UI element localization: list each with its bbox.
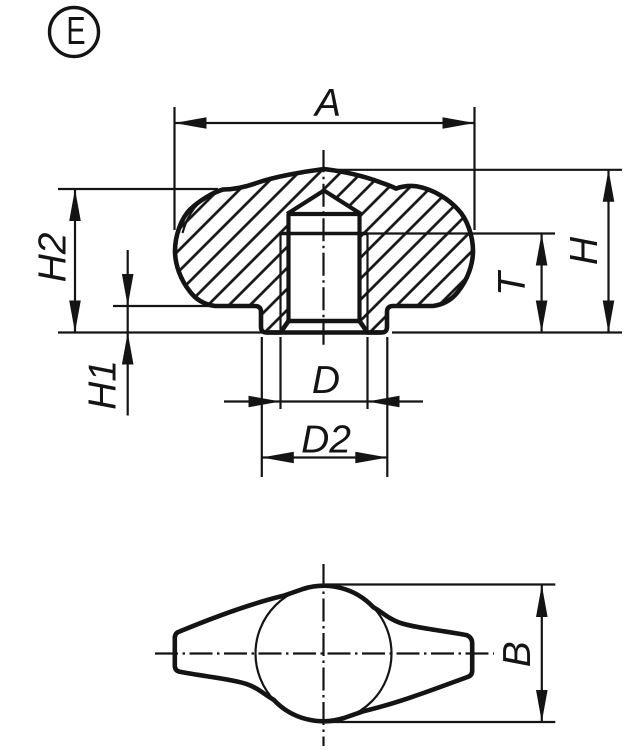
T arrowhead bottom bbox=[536, 301, 548, 333]
dimension H1 bbox=[82, 250, 252, 416]
svg-text:H: H bbox=[563, 236, 606, 265]
A arrowhead left bbox=[175, 117, 207, 129]
T extension line top bbox=[368, 232, 556, 234]
T dimension line bbox=[540, 234, 542, 333]
section centerline bbox=[322, 150, 324, 347]
thread major dia thin left bbox=[279, 234, 281, 332]
B extension line top bbox=[326, 583, 555, 585]
bottom view centerline vertical bbox=[322, 564, 324, 746]
A dimension line bbox=[175, 122, 475, 124]
B extension line bottom bbox=[326, 721, 555, 723]
drill cone bbox=[287, 191, 361, 215]
thread hole top line bbox=[289, 212, 360, 216]
H1 dimension line bbox=[127, 250, 129, 416]
D extension line right bbox=[366, 337, 368, 409]
H arrowhead top bbox=[603, 170, 615, 202]
A extension line left bbox=[173, 107, 175, 230]
dimension H bbox=[324, 170, 622, 333]
H extension line top bbox=[324, 169, 622, 171]
thread major dia thin right bbox=[366, 234, 368, 332]
H2 arrowhead bottom bbox=[69, 301, 81, 333]
H2 extension line bottom bbox=[58, 331, 265, 333]
E circle bbox=[50, 8, 99, 57]
B arrowhead bottom bbox=[536, 690, 548, 722]
view label E (circled) bbox=[50, 8, 99, 57]
D2 extension line right bbox=[386, 337, 388, 477]
knob section outline bbox=[175, 169, 473, 333]
hub bottom face edge line bbox=[267, 330, 382, 335]
A extension line right bbox=[473, 107, 475, 230]
H1 arrowhead lower bbox=[122, 333, 134, 365]
H2 arrowhead top bbox=[69, 189, 81, 221]
H extension line bottom bbox=[392, 331, 622, 333]
svg-text:T: T bbox=[491, 269, 534, 296]
D2 extension line left bbox=[261, 337, 263, 477]
svg-text:H1: H1 bbox=[82, 360, 125, 410]
hatching of section bbox=[160, 155, 490, 345]
B arrowhead top bbox=[536, 585, 548, 617]
thread depth line bbox=[281, 232, 368, 235]
H2 dimension line bbox=[74, 189, 76, 333]
svg-text:D2: D2 bbox=[301, 419, 351, 462]
wing outline thick bbox=[175, 586, 472, 721]
D extension line left bbox=[279, 337, 281, 409]
H dimension line bbox=[607, 170, 609, 333]
lobe tangent edge bbox=[183, 194, 214, 233]
H1 extension line bbox=[113, 305, 252, 307]
svg-text:B: B bbox=[496, 641, 539, 667]
A arrowhead right bbox=[443, 117, 475, 129]
D2 arrowhead left bbox=[262, 452, 294, 464]
H arrowhead bottom bbox=[603, 301, 615, 333]
H1 arrowhead upper bbox=[122, 274, 134, 306]
dimension T bbox=[368, 234, 556, 333]
thread hole left wall bbox=[286, 214, 290, 321]
dimension D bbox=[224, 337, 423, 409]
hub circle thin bbox=[256, 586, 392, 722]
svg-text:H2: H2 bbox=[31, 232, 74, 282]
D2 dimension line bbox=[262, 456, 388, 458]
D2 arrowhead right bbox=[355, 452, 387, 464]
dimension A bbox=[175, 82, 475, 230]
dimension D2 bbox=[262, 337, 388, 477]
D arrowhead left bbox=[249, 396, 281, 408]
T arrowhead top bbox=[536, 234, 548, 266]
bottom view centerline horizontal bbox=[155, 652, 494, 654]
D dimension line bbox=[224, 400, 423, 402]
H2 extension line top bbox=[58, 188, 218, 190]
dimension H2 bbox=[31, 189, 265, 333]
D arrowhead right bbox=[368, 396, 400, 408]
thread hole right wall bbox=[357, 214, 361, 321]
svg-text:A: A bbox=[313, 82, 341, 125]
B dimension line bbox=[541, 585, 543, 722]
svg-text:E: E bbox=[66, 10, 85, 53]
dimension B bbox=[326, 585, 555, 723]
svg-text:D: D bbox=[312, 359, 340, 402]
